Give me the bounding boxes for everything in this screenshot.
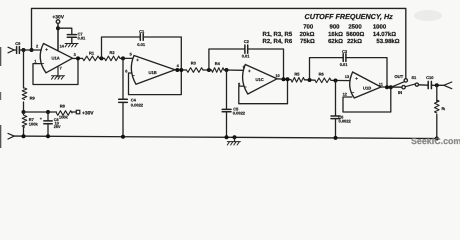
svg-text:12: 12 — [343, 92, 348, 97]
resistor R5 — [291, 78, 305, 83]
svg-text:−: − — [352, 90, 355, 95]
node U1D output a — [385, 85, 389, 89]
svg-text:C3: C3 — [342, 49, 348, 54]
svg-text:R1: R1 — [89, 51, 95, 56]
node supply junction — [56, 26, 60, 30]
svg-text:75kΩ: 75kΩ — [300, 38, 315, 45]
svg-text:C9: C9 — [15, 41, 21, 46]
svg-text:SeekIC.com: SeekIC.com — [411, 136, 460, 146]
watermark smudge top right — [414, 10, 442, 21]
wire U1B output — [175, 69, 187, 71]
svg-text:100k: 100k — [29, 121, 39, 126]
wire R4 to U1C input — [224, 69, 243, 71]
svg-text:1000: 1000 — [373, 23, 387, 30]
svg-text:+: + — [40, 116, 43, 121]
svg-text:10: 10 — [275, 73, 279, 78]
svg-text:0.0022: 0.0022 — [233, 111, 246, 116]
capacitor C2 feedback loop — [209, 49, 245, 70]
input signal arrow — [8, 47, 14, 53]
svg-text:16kΩ: 16kΩ — [328, 31, 343, 38]
wire R2 to U1B input — [120, 57, 132, 59]
svg-text:4: 4 — [177, 63, 180, 68]
node bias tap — [22, 48, 26, 52]
node rail ground — [233, 135, 237, 139]
node rail R7 — [22, 134, 26, 138]
svg-text:62kΩ: 62kΩ — [328, 38, 343, 45]
node C8 tap — [46, 110, 50, 114]
node U1B output a — [175, 68, 179, 72]
svg-text:11: 11 — [379, 82, 384, 87]
svg-text:0.0022: 0.0022 — [131, 102, 144, 107]
resistor R3 — [187, 68, 204, 73]
svg-text:0.0022: 0.0022 — [339, 118, 352, 123]
op-amp U1A — [40, 44, 72, 73]
wire U1D output — [381, 86, 402, 88]
ground return arrow (input shield) — [8, 133, 14, 139]
op-amp U1C — [243, 65, 277, 95]
svg-text:5: 5 — [130, 51, 133, 56]
wire bias divider from input node — [23, 50, 25, 88]
wire U1C feedback loop pin8 to output — [239, 79, 288, 103]
wire OUT tap diagonal — [391, 82, 405, 88]
svg-text:14: 14 — [60, 44, 65, 49]
capacitor C7 bypass — [58, 28, 72, 34]
svg-text:+: + — [355, 76, 358, 81]
wire U1A output — [73, 57, 83, 59]
ground symbol on rail — [234, 137, 236, 141]
node C (R2/U1B/C4) — [121, 56, 125, 60]
capacitor C8 electrolytic — [47, 112, 49, 121]
svg-text:U1A: U1A — [52, 56, 60, 61]
svg-text:0.01: 0.01 — [242, 54, 251, 59]
resistor RL load — [436, 85, 438, 101]
svg-text:R2: R2 — [110, 50, 116, 55]
wire R1 to node B — [100, 57, 105, 59]
node D (R3/R4/C2) — [207, 68, 211, 72]
svg-text:2500: 2500 — [348, 23, 362, 30]
wire U1A feedback loop pin1 to output — [33, 58, 78, 84]
resistor R1 — [83, 56, 100, 61]
svg-text:−: − — [42, 61, 45, 66]
node G (R6/U1D/C6) — [334, 79, 338, 83]
resistor R2 — [105, 56, 121, 61]
resistor R6 — [315, 78, 331, 83]
node U1B output b — [179, 68, 183, 72]
svg-text:−: − — [244, 85, 247, 90]
node U1C output a — [282, 77, 286, 81]
svg-text:R4: R4 — [215, 61, 221, 66]
node input junction A — [30, 48, 34, 52]
ground at U1A pin 7 — [57, 66, 59, 77]
svg-text:U1D: U1D — [363, 86, 371, 91]
svg-text:6: 6 — [125, 68, 128, 73]
svg-text:+: + — [136, 58, 139, 63]
node rail C8 — [46, 134, 50, 138]
svg-text:C10: C10 — [426, 75, 434, 80]
svg-text:7: 7 — [60, 65, 62, 70]
scan edge artifacts left — [0, 47, 1, 66]
svg-text:900: 900 — [329, 23, 340, 30]
svg-text:R5: R5 — [294, 72, 300, 77]
node F (R5/R6/C3) — [308, 78, 312, 82]
wire R3 to node D — [203, 69, 212, 71]
switch S1 — [402, 86, 405, 89]
wire supply to pin 14 — [57, 23, 59, 50]
capacitor C4 to ground rail — [122, 58, 124, 99]
svg-text:R8: R8 — [60, 103, 66, 108]
svg-text:25V: 25V — [54, 125, 61, 129]
node rail C6 — [334, 136, 338, 140]
svg-text:R6: R6 — [319, 72, 325, 77]
node U1C output b — [286, 77, 290, 81]
wire R6 to U1D input — [331, 79, 350, 81]
wire R5 to node F — [305, 79, 316, 81]
resistor R4 — [212, 68, 225, 73]
svg-text:700: 700 — [303, 23, 314, 30]
svg-text:1: 1 — [34, 59, 37, 64]
svg-text:R1, R3, R5: R1, R3, R5 — [263, 31, 293, 38]
wire ground rail — [14, 136, 437, 138]
svg-text:0.01: 0.01 — [78, 35, 87, 40]
wire U1B feedback loop pin6 to output — [129, 70, 182, 95]
node B (R1/R2/C1) — [100, 56, 104, 60]
capacitor C6 to ground rail — [335, 81, 337, 116]
svg-text:5600Ω: 5600Ω — [346, 31, 364, 38]
wire U1C output — [277, 78, 291, 81]
wire U1D feedback loop pin12 to output — [343, 87, 391, 112]
svg-text:+: + — [45, 47, 48, 52]
node U1A output — [76, 56, 80, 60]
svg-text:R3: R3 — [191, 61, 197, 66]
output arrow — [444, 82, 452, 89]
svg-text:OUT: OUT — [394, 74, 403, 79]
resistor R8 — [57, 111, 73, 116]
node bias junction — [22, 110, 26, 114]
node rail RL — [435, 137, 439, 141]
svg-text:U1B: U1B — [149, 70, 157, 75]
node rail C4 — [121, 135, 125, 139]
svg-text:2: 2 — [36, 44, 39, 49]
svg-text:100k: 100k — [59, 114, 69, 119]
node output junction — [435, 83, 439, 87]
svg-text:14.07kΩ: 14.07kΩ — [373, 31, 396, 38]
capacitor C5 to ground rail — [226, 70, 228, 109]
op-amp U1D — [350, 72, 381, 98]
svg-text:IN: IN — [398, 90, 402, 95]
op-amp U1B — [131, 56, 175, 85]
ground below C7 — [65, 44, 78, 47]
svg-text:U1C: U1C — [256, 77, 264, 82]
capacitor C1 feedback loop — [102, 37, 141, 58]
svg-text:13: 13 — [345, 74, 350, 79]
svg-text:0.01: 0.01 — [137, 42, 146, 47]
node U1D output b — [389, 85, 393, 89]
svg-text:+: + — [248, 69, 251, 74]
wire bias node to R8 — [24, 111, 57, 113]
svg-text:+30V: +30V — [82, 110, 94, 116]
resistor R9 — [22, 88, 27, 100]
svg-text:R2, R4, R6: R2, R4, R6 — [263, 38, 293, 45]
svg-text:CUTOFF FREQUENCY, Hz: CUTOFF FREQUENCY, Hz — [305, 12, 394, 21]
svg-text:C1: C1 — [139, 29, 145, 34]
svg-text:Rₗ: Rₗ — [442, 106, 446, 111]
node rail C5 — [225, 135, 229, 139]
capacitor C10 output coupling — [419, 84, 428, 86]
resistor R7 — [23, 112, 25, 115]
svg-text:C2: C2 — [244, 39, 250, 44]
svg-text:0.01: 0.01 — [340, 62, 349, 67]
svg-text:−: − — [132, 73, 135, 78]
svg-text:3: 3 — [74, 52, 77, 57]
svg-text:R9: R9 — [30, 96, 36, 101]
capacitor C3 feedback loop — [310, 58, 344, 80]
svg-text:22kΩ: 22kΩ — [347, 38, 362, 45]
svg-text:53.98kΩ: 53.98kΩ — [376, 38, 399, 45]
wire top feedback line from U1A input to OUT terminal (forms table frame) — [32, 8, 406, 78]
svg-text:20kΩ: 20kΩ — [300, 31, 315, 38]
node E (R4/U1C/C5) — [225, 68, 229, 72]
capacitor C9 input coupling — [14, 49, 16, 51]
+30V terminal square — [72, 111, 76, 113]
svg-text:S1: S1 — [411, 75, 417, 80]
